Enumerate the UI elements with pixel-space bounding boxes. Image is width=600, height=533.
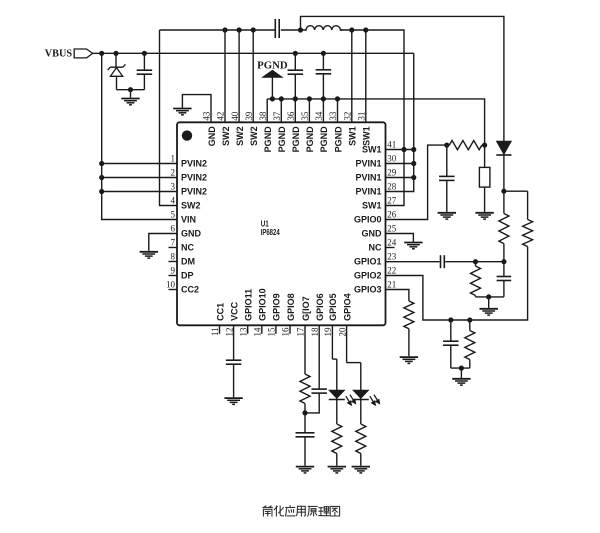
svg-text:24: 24: [387, 238, 397, 248]
svg-text:26: 26: [387, 210, 397, 220]
svg-text:7: 7: [171, 238, 176, 248]
capacitor C5: [446, 145, 448, 176]
junction C4 top: [321, 51, 326, 56]
wire pin42 up: [224, 30, 226, 122]
wire pin39 up: [252, 30, 254, 122]
junction pin29: [411, 175, 416, 180]
svg-text:18: 18: [310, 327, 320, 337]
wire pin43 GND: [182, 95, 211, 123]
junction SW1 riser / pin41: [401, 147, 406, 152]
junction ground node GPIO2: [459, 366, 464, 371]
svg-text:GND: GND: [207, 126, 217, 147]
svg-text:SW1: SW1: [362, 144, 382, 154]
svg-text:33: 33: [328, 111, 338, 121]
svg-text:GND: GND: [181, 228, 202, 238]
svg-text:PGND: PGND: [319, 126, 329, 153]
caption 简化应用原理图: [263, 506, 272, 516]
wire pin2 PVIN2: [102, 177, 177, 179]
svg-text:PVIN2: PVIN2: [181, 186, 207, 196]
svg-text:PVIN1: PVIN1: [355, 186, 381, 196]
capacitor C6 (series on GPIO1): [440, 255, 442, 268]
junction GPIO2-R6: [467, 317, 472, 322]
svg-text:GPIO2: GPIO2: [354, 270, 382, 280]
svg-text:SW2: SW2: [181, 200, 201, 210]
pin stub left y=289.5: [169, 289, 178, 291]
svg-text:27: 27: [387, 196, 397, 206]
wire pin12 VCC: [233, 325, 235, 360]
wire PGND pin down x=267.2: [266, 99, 268, 122]
pin stub left y=247.5: [169, 247, 178, 249]
svg-text:43: 43: [202, 111, 212, 121]
svg-text:29: 29: [387, 168, 397, 178]
svg-text:NC: NC: [181, 242, 194, 252]
junction GPIO1-R5: [473, 259, 478, 264]
svg-text:GPIO11: GPIO11: [244, 289, 254, 321]
capacitor C8: [450, 320, 452, 341]
svg-text:35: 35: [300, 111, 310, 121]
wire VBUS rail: [93, 52, 414, 54]
wire pin3 PVIN2: [102, 191, 177, 193]
svg-text:2: 2: [171, 168, 176, 178]
wire pin17 GPIO7: [304, 325, 306, 374]
junction pin30: [411, 161, 416, 166]
zener diode D1 (TVS on VBUS): [115, 53, 117, 67]
svg-text:28: 28: [387, 182, 397, 192]
wire SW2 top bus: [160, 29, 275, 31]
capacitor C7: [503, 262, 505, 277]
wire pin26 GPIO0: [386, 145, 445, 219]
svg-text:15: 15: [267, 327, 277, 337]
svg-text:22: 22: [387, 266, 396, 276]
ground (C11): [296, 466, 314, 468]
svg-text:14: 14: [253, 327, 263, 337]
svg-text:SW1: SW1: [348, 126, 358, 146]
svg-text:30: 30: [387, 154, 397, 164]
svg-text:31: 31: [357, 112, 367, 121]
junction pin2: [99, 175, 104, 180]
svg-text:23: 23: [387, 252, 397, 262]
junction pin1: [99, 161, 104, 166]
junction VBUS-C1: [142, 51, 147, 56]
svg-text:PVIN1: PVIN1: [355, 158, 381, 168]
LED D4 with resistor R10 (GPIO4): [346, 325, 348, 362]
capacitor C1 (VBUS bulk): [143, 53, 145, 70]
VBUS connector symbol: [74, 49, 93, 58]
junction PGND pin at x=281.3: [279, 96, 284, 101]
svg-text:20: 20: [337, 327, 347, 337]
svg-text:5: 5: [171, 210, 176, 220]
capacitor C2 (resonant, series): [274, 19, 276, 38]
svg-text:GPIO6: GPIO6: [315, 293, 325, 321]
wire pin25 GND: [386, 234, 414, 242]
svg-text:34: 34: [314, 111, 324, 121]
wire D2 node to R4: [504, 190, 528, 192]
svg-text:NC: NC: [369, 242, 382, 252]
wire pin6 GND: [149, 234, 177, 251]
junction GPIO1-C7 / R3 bottom: [501, 259, 506, 264]
svg-text:16: 16: [281, 327, 291, 337]
ground (R5/C7): [480, 308, 498, 310]
wire ground stem: [130, 90, 132, 98]
junction PGND pin at x=337.5: [335, 96, 340, 101]
svg-text:17: 17: [296, 327, 306, 337]
svg-text:CC1: CC1: [215, 303, 225, 321]
svg-text:25: 25: [387, 224, 397, 234]
wire PGND pin down x=337.5: [337, 99, 339, 122]
wire PVIN2 vertical: [102, 53, 177, 219]
svg-text:GPIO1: GPIO1: [354, 256, 382, 266]
svg-text:3: 3: [171, 182, 176, 192]
junction pin40: [237, 27, 242, 32]
svg-text:13: 13: [238, 327, 248, 337]
svg-text:VCC: VCC: [229, 301, 239, 321]
svg-text:PVIN1: PVIN1: [355, 172, 381, 182]
wire SW2 vertical to pin4: [160, 30, 178, 206]
ground (GPIO2 RC): [452, 378, 470, 380]
resistor R4: [527, 191, 529, 219]
svg-text:SW1: SW1: [362, 200, 382, 210]
svg-text:32: 32: [343, 112, 353, 121]
capacitor C9 (VCC decoupling): [226, 359, 242, 361]
wire R5-C7 bottom: [476, 296, 504, 298]
resistor R6: [469, 320, 471, 331]
svg-text:9: 9: [171, 266, 176, 276]
svg-text:21: 21: [387, 280, 396, 290]
ground (R7): [400, 356, 418, 358]
inductor L1 (TX coil): [301, 26, 343, 30]
wire D1-C1 bottom: [117, 89, 145, 91]
svg-text:PVIN2: PVIN2: [181, 158, 207, 168]
svg-text:PGND: PGND: [333, 126, 343, 153]
junction pin32: [349, 27, 354, 32]
svg-text:1: 1: [171, 154, 176, 164]
ground (pin25): [404, 242, 422, 244]
wire pin23 GPIO1: [386, 261, 440, 263]
wire top feedback riser: [301, 16, 504, 141]
svg-text:36: 36: [286, 111, 296, 121]
svg-text:GPIO0: GPIO0: [354, 214, 382, 224]
svg-text:37: 37: [272, 111, 282, 121]
svg-text:38: 38: [258, 111, 268, 121]
resistor R7: [404, 301, 414, 329]
svg-text:SW2: SW2: [235, 126, 245, 146]
svg-text:GPIO5: GPIO5: [328, 293, 338, 321]
wire C2 to L1: [281, 29, 301, 31]
svg-text:CC2: CC2: [181, 284, 199, 294]
resistor R8: [300, 374, 310, 404]
junction R1-R2 node: [482, 143, 487, 148]
junction D2 cathode node: [501, 189, 506, 194]
capacitor C11: [304, 413, 306, 433]
wire pin41 SW1: [386, 149, 414, 151]
junction VBUS-D1: [113, 51, 118, 56]
svg-text:GPIO3: GPIO3: [354, 284, 382, 294]
pin stub left y=275.5: [169, 275, 178, 277]
svg-text:SW2: SW2: [249, 126, 259, 146]
junction PGND pin at x=323.4: [321, 96, 326, 101]
svg-text:40: 40: [230, 111, 240, 121]
svg-text:10: 10: [166, 280, 176, 290]
capacitor C10 (series on GPIO6): [311, 388, 327, 390]
svg-text:SW1: SW1: [362, 126, 372, 146]
svg-text:39: 39: [244, 111, 254, 121]
junction pin3: [99, 189, 104, 194]
wire PGND pin down x=309.4: [308, 99, 310, 122]
wire PGND pin down x=281.3: [280, 99, 282, 122]
pin24 NC stub: [386, 247, 395, 249]
ground (C5): [438, 212, 456, 214]
svg-text:G[IO7: G[IO7: [301, 296, 311, 321]
svg-text:DP: DP: [181, 270, 194, 280]
wire pin40 up: [238, 30, 240, 122]
wire PVIN1 vertical (from VBUS rail): [386, 53, 414, 191]
pin stub left y=261.5: [169, 261, 178, 263]
resistor R1 (horizontal): [447, 144, 450, 146]
wire L1 to SW1 corner: [341, 30, 404, 206]
wire pin30 PVIN1: [386, 163, 414, 165]
svg-text:12: 12: [224, 328, 234, 337]
svg-text:42: 42: [216, 112, 226, 121]
wire R4 to GPIO2 node: [386, 247, 528, 321]
wire pin21 GPIO3: [386, 290, 409, 302]
junction coil input node: [298, 27, 303, 32]
svg-text:SW2: SW2: [221, 126, 231, 146]
svg-text:GPIO9: GPIO9: [272, 293, 282, 321]
bottom NC pin stubs: [219, 325, 221, 334]
svg-text:GPIO8: GPIO8: [286, 293, 296, 321]
wire C8-R6 bottom: [451, 367, 470, 369]
svg-text:4: 4: [171, 196, 176, 206]
resistor R2 (box style): [484, 145, 486, 167]
svg-text:IP6824: IP6824: [261, 228, 280, 237]
junction R8-C10-C11: [302, 410, 307, 415]
svg-text:PGND: PGND: [291, 126, 301, 153]
wire pin29 PVIN1: [386, 177, 414, 179]
junction GPIO2-C8: [448, 317, 453, 322]
svg-text:GND: GND: [362, 228, 383, 238]
svg-text:6: 6: [171, 224, 176, 234]
junction pin39: [251, 27, 256, 32]
wire pin18 GPIO6: [318, 325, 320, 389]
svg-text:8: 8: [171, 252, 176, 262]
junction PGND pin at x=295.3: [293, 96, 298, 101]
IC U1 IP6824 chip body: [177, 122, 386, 325]
svg-text:PGND: PGND: [263, 126, 273, 153]
U1 pin-1 marker dot: [182, 130, 192, 140]
junction pin42: [222, 27, 227, 32]
wire pin32 up: [351, 30, 353, 122]
svg-text:VIN: VIN: [181, 214, 196, 224]
svg-text:41: 41: [387, 140, 396, 150]
capacitor C3 (VBUS-PGND at pin36): [294, 53, 296, 70]
wire pin1 PVIN2: [102, 163, 177, 165]
LED D3 with resistor R9 (GPIO5): [331, 325, 333, 359]
ground (pin6): [140, 251, 158, 253]
svg-text:PGND: PGND: [305, 126, 315, 153]
junction pin31: [363, 27, 368, 32]
ground (pin43): [173, 108, 191, 110]
ground (VCC): [224, 397, 242, 399]
wire pin31 up: [365, 30, 367, 122]
junction VBUS-PVIN2: [99, 51, 104, 56]
junction R1-C5 node: [444, 143, 449, 148]
svg-text:GPIO4: GPIO4: [342, 293, 352, 321]
junction PVIN1 riser / pin41: [411, 147, 416, 152]
svg-text:19: 19: [323, 327, 333, 337]
svg-text:11: 11: [210, 328, 220, 337]
diode D2: [497, 141, 512, 154]
svg-text:DM: DM: [181, 256, 195, 266]
svg-text:GPIO10: GPIO10: [258, 288, 268, 321]
svg-text:VBUS: VBUS: [45, 47, 72, 59]
ground (VBUS input): [121, 98, 139, 100]
wire PGND bus: [267, 99, 484, 145]
capacitor C4 (VBUS-PGND at pin34): [322, 53, 324, 70]
junction ground stem: [128, 87, 133, 92]
junction ground node: [486, 294, 491, 299]
PGND power symbol (up arrow): [263, 70, 282, 77]
svg-text:PVIN2: PVIN2: [181, 172, 207, 182]
junction PGND arrow: [270, 96, 275, 101]
svg-text:PGND: PGND: [277, 126, 287, 153]
junction PGND pin at x=309.4: [307, 96, 312, 101]
ground (R2): [475, 212, 493, 214]
resistor R5: [475, 262, 477, 266]
resistor R3: [503, 191, 505, 213]
junction C3 top: [293, 51, 298, 56]
